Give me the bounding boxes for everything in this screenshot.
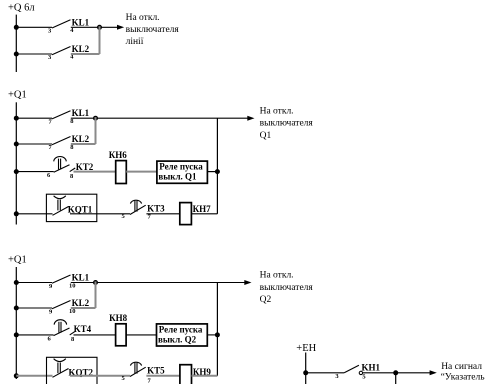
junction bus3/KQT2: [14, 373, 19, 378]
wire KL2 s2 left: [16, 143, 52, 145]
junction bus2/KT2: [14, 169, 19, 174]
wire KL2 s3 right: [71, 307, 96, 309]
svg-text:KL1: KL1: [72, 108, 90, 118]
wire bus2 vertical: [15, 102, 17, 224]
svg-text:На откл.: На откл.: [260, 271, 294, 281]
wire KT5 to KH9: [146, 375, 180, 377]
svg-text:КН6: КН6: [109, 150, 128, 160]
svg-text:+Q1: +Q1: [8, 255, 27, 266]
junction EH node: [303, 370, 308, 375]
svg-text:KT3: KT3: [147, 203, 165, 213]
svg-text:KT2: KT2: [76, 162, 94, 172]
svg-text:лінії: лінії: [126, 37, 144, 47]
wire relay Q1 to bus: [207, 171, 217, 173]
contact KL1 (section 1): [48, 17, 90, 34]
svg-text:выключателя: выключателя: [260, 119, 314, 129]
svg-text:10: 10: [69, 308, 76, 315]
wire KH8 to relay box: [126, 334, 156, 336]
wire KT3 to KH7: [146, 213, 179, 215]
wire KH6 to relay box: [126, 171, 157, 173]
wire KL2 to node riser: [99, 26, 101, 54]
coil KH8: [109, 313, 128, 346]
wire KT4 to KH8: [74, 334, 116, 336]
svg-text:KT4: KT4: [74, 324, 92, 334]
contact KT2 time-delay: [47, 157, 94, 181]
wire KQT2 to KT5: [70, 375, 130, 377]
wire KL1 s3 left: [16, 282, 52, 284]
svg-text:Q2: Q2: [260, 295, 272, 305]
contact KT3 time-delay: [122, 200, 166, 220]
node +Q1 label (section 2): [8, 90, 27, 101]
wire KH9 to bus: [192, 375, 218, 377]
junction KL1/KL2 output node: [97, 25, 102, 30]
wire KH1 to node: [363, 372, 396, 374]
junction KL1 s2 node: [93, 116, 98, 121]
contact KT4 time-delay: [48, 320, 92, 343]
svg-text:+ЕН: +ЕН: [296, 343, 316, 354]
wire KQT2 row left: [16, 375, 52, 377]
svg-text:KT5: KT5: [147, 365, 165, 375]
node label output 2 text: [260, 107, 314, 141]
svg-text:КН8: КН8: [109, 313, 128, 323]
svg-text:выкл. Q1: выкл. Q1: [158, 172, 197, 182]
contact KL1 (section 2): [49, 108, 90, 125]
svg-text:На откл.: На откл.: [126, 13, 160, 23]
wire KL1 s3 right: [71, 282, 96, 284]
wire KT2 to KH6: [74, 171, 116, 173]
wire KL2 row right: [71, 53, 100, 55]
wire KL1 row right: [71, 26, 100, 28]
wire EH to KH1: [306, 372, 345, 374]
wire KL2 s3 left: [16, 307, 52, 309]
svg-text:“Указатель: “Указатель: [441, 373, 486, 383]
wire KT2 row left: [16, 171, 53, 173]
coil KH6: [109, 150, 128, 184]
svg-text:+Q1: +Q1: [8, 90, 27, 101]
node label signal text: [441, 362, 486, 382]
wire node drop: [395, 373, 397, 384]
contact KL2 (section 3): [49, 298, 90, 316]
wire bus3 vertical: [15, 267, 17, 379]
junction bus1/KL2: [14, 52, 19, 57]
svg-text:КН7: КН7: [193, 204, 212, 214]
wire KQT1 to KT3: [70, 213, 130, 215]
node label output 1 text: [126, 13, 180, 47]
svg-text:KQT1: KQT1: [68, 205, 93, 215]
wire right bus s2: [216, 118, 218, 214]
node label output 3 text: [260, 271, 314, 305]
wire KL2 s2 right: [71, 143, 96, 145]
wire KL1 s2 right: [71, 117, 96, 119]
node +EH label: [296, 343, 316, 354]
junction bus2/KL2: [14, 142, 19, 147]
svg-text:выкл. Q2: выкл. Q2: [158, 334, 197, 344]
wire arrow to output 2: [96, 116, 255, 121]
coil KH9: [180, 365, 212, 384]
wire KT4 row left: [16, 334, 53, 336]
coil KH7: [180, 203, 211, 225]
svg-text:KL1: KL1: [72, 273, 90, 283]
box KQT1: [46, 194, 96, 221]
junction bus1/KL1: [14, 25, 19, 30]
svg-text:KH1: KH1: [362, 362, 381, 372]
box KQT2: [47, 357, 98, 384]
svg-text:На сигнал: На сигнал: [441, 362, 482, 372]
contact KQT1: [53, 196, 93, 216]
wire KL1 row left: [16, 26, 52, 28]
wire bus1 vertical: [15, 15, 17, 72]
wire EH vertical: [305, 353, 307, 384]
box relay Q2: [157, 324, 208, 346]
contact KL2 (section 1): [48, 44, 90, 61]
svg-text:KL2: KL2: [72, 298, 90, 308]
wire relay Q2 to bus: [207, 334, 217, 336]
contact KL1 (section 3): [49, 273, 90, 291]
svg-text:KL2: KL2: [72, 44, 90, 54]
svg-text:10: 10: [69, 283, 76, 290]
svg-text:выключателя: выключателя: [126, 25, 180, 35]
junction bus2/KQT1: [14, 211, 19, 216]
box relay Q1: [157, 161, 208, 183]
svg-text:KL1: KL1: [72, 17, 90, 27]
contact KH1: [335, 362, 380, 380]
wire KL2 s3 riser: [95, 281, 97, 308]
svg-text:На откл.: На откл.: [260, 107, 294, 117]
junction KH1 node: [393, 370, 398, 375]
contact KQT2: [53, 359, 94, 378]
wire right bus s3: [216, 283, 218, 376]
wire KL2 row left: [16, 53, 52, 55]
contact KT5 time-delay: [122, 362, 166, 384]
svg-text:Реле пуска: Реле пуска: [159, 324, 203, 334]
svg-text:Q1: Q1: [260, 131, 272, 141]
wire arrow to signal: [396, 370, 437, 375]
node +Q 6л label: [8, 3, 35, 14]
contact KL2 (section 2): [49, 134, 90, 151]
wire KQT1 row left: [16, 213, 52, 215]
junction KL1 s3 node: [93, 280, 98, 285]
wire KL2 s2 riser: [95, 117, 97, 144]
junction bus3/KL1: [14, 280, 19, 285]
wire KH7 to bus: [191, 213, 217, 215]
svg-text:Реле пуска: Реле пуска: [159, 162, 203, 172]
wire KL1 s2 left: [16, 117, 52, 119]
svg-text:KL2: KL2: [72, 134, 90, 144]
wire arrow to output 1: [100, 25, 125, 30]
svg-text:+Q 6л: +Q 6л: [8, 3, 35, 14]
node +Q1 label (section 3): [8, 255, 27, 266]
wire arrow to output 3: [96, 280, 252, 285]
junction bus3/KL2: [14, 306, 19, 311]
junction right bus s2: [215, 169, 220, 174]
junction right bus s3: [215, 332, 220, 337]
junction bus2/KL1: [14, 116, 19, 121]
junction bus3/KT4: [14, 332, 19, 337]
svg-text:выключателя: выключателя: [260, 283, 314, 293]
